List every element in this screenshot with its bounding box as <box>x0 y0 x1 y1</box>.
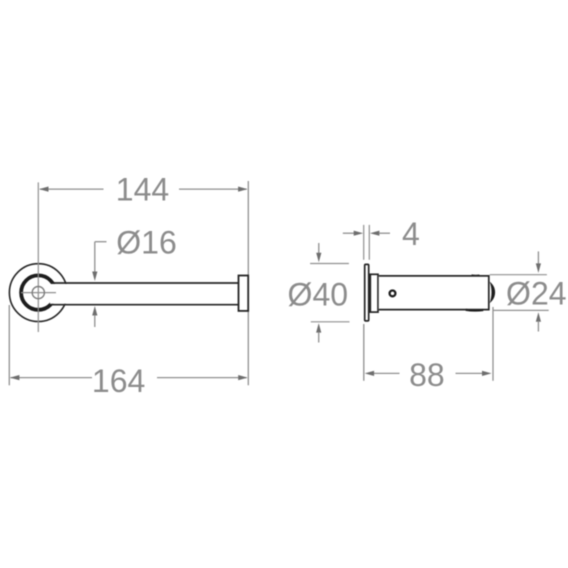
dim Ø16 leader jog <box>95 241 107 243</box>
post dome end arc <box>490 282 495 304</box>
dim 144/164 shared right extension line <box>247 181 249 385</box>
dim Ø16 upper arrow line <box>94 242 96 272</box>
dim Ø40 bottom extension line <box>311 321 350 323</box>
svg-text:Ø16: Ø16 <box>116 224 176 260</box>
svg-text:Ø24: Ø24 <box>506 276 566 312</box>
svg-text:144: 144 <box>116 172 169 208</box>
roller bar top edge <box>51 282 239 284</box>
dim Ø24 top arrowhead <box>536 263 541 273</box>
dim 4 right arrowhead <box>370 231 380 236</box>
flange bearing ring <box>21 275 55 309</box>
dim Ø24 bottom arrow line <box>537 321 539 332</box>
dim Ø40 top arrow line <box>318 243 320 254</box>
dim Ø24 bottom extension line <box>493 309 549 311</box>
post bottom shadow arc <box>466 309 484 312</box>
screw hole <box>390 291 396 297</box>
dim 144 right arrowhead <box>238 187 248 192</box>
roller bar bottom edge <box>51 304 239 306</box>
dim Ø40 bottom arrowhead <box>316 323 321 333</box>
mounting post outline <box>379 276 489 310</box>
flange centerline vertical / 144 left extension <box>37 182 39 332</box>
dim Ø40 bottom arrow line <box>318 332 320 343</box>
dim 164 left extension line <box>8 305 10 385</box>
dim 4 dimension line left <box>343 232 355 234</box>
wall plate <box>365 264 369 321</box>
dim Ø16 lower arrowhead <box>92 306 97 316</box>
dim Ø24 bottom arrowhead <box>536 312 541 322</box>
dim 88 left extension line <box>363 324 365 381</box>
dim Ø40 top extension line <box>310 263 349 265</box>
dim Ø16 upper arrowhead <box>92 272 97 282</box>
dim 88 left arrowhead <box>365 371 375 376</box>
svg-text:Ø40: Ø40 <box>288 277 348 313</box>
dim Ø40 top arrowhead <box>316 253 321 263</box>
dim 88 right arrowhead <box>482 371 492 376</box>
svg-text:88: 88 <box>409 357 445 393</box>
dim Ø24 top extension line <box>490 274 547 276</box>
dim 88 right extension line <box>492 307 494 381</box>
dim 4 left arrowhead <box>354 231 364 236</box>
dim 164 right arrowhead <box>238 375 248 380</box>
dim 144 left arrowhead <box>39 187 49 192</box>
dim 144 dimension line <box>40 188 247 190</box>
svg-text:164: 164 <box>92 363 145 399</box>
dim 4 extension lines <box>364 225 370 260</box>
dim 4 dimension line right <box>379 232 390 234</box>
flange center screw circle <box>32 287 44 299</box>
dim 88 dimension line <box>373 372 483 374</box>
mounting post body <box>379 276 489 310</box>
roller bar body fill <box>50 284 238 304</box>
flange outer circle <box>9 264 67 322</box>
collar <box>370 274 378 312</box>
dim 164 left arrowhead <box>10 375 20 380</box>
dim Ø24 top arrow line <box>537 251 539 264</box>
end cap <box>239 276 249 311</box>
post top shadow arc <box>472 274 480 276</box>
dim Ø16 lower arrow line <box>94 315 96 327</box>
flange centerline horizontal <box>21 292 56 294</box>
svg-text:4: 4 <box>402 216 420 252</box>
dim 164 dimension line <box>11 377 247 379</box>
